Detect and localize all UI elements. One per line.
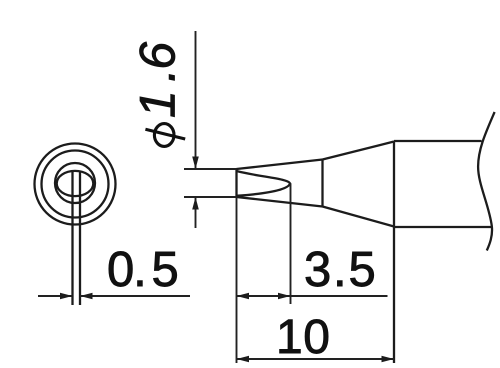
side view chisel cut half-ellipse bbox=[237, 171, 291, 196]
phi1.6 dimension line lower tail bbox=[195, 197, 197, 228]
svg-text:10: 10 bbox=[276, 311, 330, 364]
phi1.6 top extension line bbox=[184, 168, 237, 170]
end view outer circle bbox=[35, 144, 116, 225]
side view top contour chisel section bbox=[237, 160, 323, 170]
phi1.6 bottom extension line bbox=[184, 196, 237, 198]
0.5 dimension line right tail bbox=[80, 295, 190, 297]
slot line right (0.5 width extension) bbox=[79, 172, 81, 306]
body left edge + extension line down bbox=[393, 141, 395, 363]
body bottom edge bbox=[394, 226, 491, 228]
arrow right at 0.5 left bbox=[60, 293, 73, 300]
arrow left-pointing at 3.5 left end bbox=[237, 293, 250, 300]
end view inner circle bbox=[55, 163, 95, 203]
arrow right-pointing at 10 right end bbox=[382, 356, 395, 363]
side view tip face bbox=[235, 169, 237, 197]
chisel end extension line down bbox=[290, 183, 292, 304]
end view ellipse (chisel face) bbox=[57, 171, 94, 196]
arrow up at phi1.6 bottom bbox=[192, 197, 199, 210]
side view joint vertical line bbox=[321, 160, 323, 207]
3.5 dimension line with right tail bbox=[237, 295, 388, 297]
body break squiggle bbox=[478, 112, 495, 251]
slot line left (0.5 width extension) bbox=[71, 172, 73, 306]
side view top contour cone bbox=[323, 142, 395, 160]
0.5 dimension line left tail bbox=[38, 295, 73, 297]
svg-text:3.5: 3.5 bbox=[304, 243, 378, 297]
tip face extension line down bbox=[236, 197, 238, 363]
10 dimension line bbox=[237, 358, 395, 360]
side view bottom contour cone bbox=[323, 207, 395, 227]
end view second circle bbox=[42, 151, 109, 218]
svg-text:0.5: 0.5 bbox=[107, 243, 181, 297]
phi1.6 dimension line upper bbox=[195, 31, 197, 169]
arrow left at 0.5 right bbox=[80, 293, 93, 300]
side view bottom contour chisel section bbox=[237, 197, 323, 207]
arrow right-pointing at 3.5 right end bbox=[278, 293, 291, 300]
label phi symbol stem bbox=[145, 129, 185, 139]
label phi symbol bowl bbox=[154, 124, 174, 147]
svg-text:1.6: 1.6 bbox=[130, 40, 186, 118]
arrow left-pointing at 10 left end bbox=[237, 356, 250, 363]
body top edge bbox=[394, 140, 482, 142]
arrow down at phi1.6 top bbox=[192, 157, 199, 170]
